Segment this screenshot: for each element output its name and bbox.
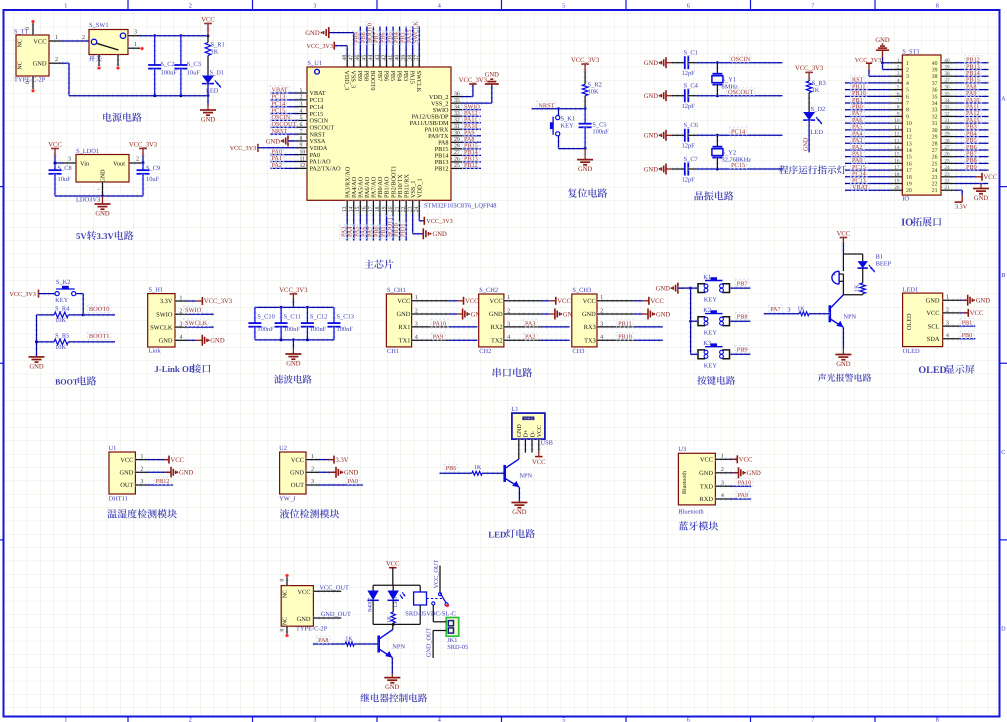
- resistor S_R5 10K: [37, 340, 55, 344]
- keys trunk wire: [689, 288, 693, 354]
- svg-text:GND: GND: [974, 195, 989, 202]
- svg-text:100nF: 100nF: [310, 326, 327, 333]
- svg-text:NPN: NPN: [392, 644, 405, 651]
- IO header pin 8: [890, 108, 902, 112]
- svg-text:100nF: 100nF: [257, 326, 274, 333]
- wire NRST: [532, 107, 585, 111]
- IO header pin 6: [890, 94, 902, 98]
- svg-text:17: 17: [368, 206, 374, 212]
- svg-text:VCC: VCC: [532, 459, 546, 466]
- pin 1 VCC of S_T1: [49, 39, 62, 43]
- svg-text:LED1: LED1: [903, 286, 919, 293]
- svg-text:2: 2: [55, 57, 58, 63]
- ground for S_C4: [666, 95, 672, 97]
- svg-text:14: 14: [349, 206, 355, 212]
- S_CH3 GND power: [634, 312, 642, 316]
- svg-text:5: 5: [300, 115, 303, 121]
- chip bottom pin 14 PA4/AO: [352, 200, 356, 214]
- TYPE-C-2P bottom pin: [285, 626, 289, 634]
- svg-text:PB12: PB12: [464, 162, 478, 169]
- svg-text:LED: LED: [811, 129, 824, 136]
- U2 GND power: [319, 470, 337, 474]
- svg-text:31: 31: [932, 121, 938, 127]
- wire LED to GND net: [807, 120, 811, 152]
- IO header pin 3: [890, 74, 902, 78]
- IO header pin 21: [941, 188, 956, 192]
- svg-text:VCC_3V3: VCC_3V3: [795, 65, 824, 72]
- S_CH2 GND power: [541, 312, 549, 316]
- chip right pin 28 PB15: [451, 147, 462, 151]
- svg-text:1: 1: [64, 716, 67, 722]
- U1 OUT net PB12: [148, 483, 173, 487]
- key S_K1 reset button: [557, 109, 561, 116]
- svg-text:S_R2: S_R2: [588, 82, 602, 89]
- svg-text:VCC_3V3: VCC_3V3: [204, 298, 233, 305]
- U2 OUT net PA0: [319, 483, 363, 487]
- wire K2 to BOOT0: [76, 292, 83, 296]
- svg-text:100nF: 100nF: [284, 326, 301, 333]
- svg-text:9: 9: [300, 143, 303, 149]
- chip left pin 6 OSCOUT: [297, 125, 308, 129]
- S_CH3 pin 2 GND: [597, 312, 634, 316]
- chip top pin 39 PB3: [404, 55, 408, 67]
- svg-text:PA15: PA15: [409, 71, 416, 85]
- bluetooth pin 3 TXD: [715, 484, 730, 488]
- svg-text:4: 4: [415, 335, 418, 341]
- ground for S_C7: [666, 168, 672, 170]
- svg-text:VCC_OUT: VCC_OUT: [433, 560, 440, 589]
- svg-text:12pF: 12pF: [682, 70, 696, 77]
- chip VSS_2 to GND: [462, 101, 492, 105]
- S_CH3 pin 3 RX3: [597, 325, 634, 329]
- key K2 output net PB8: [730, 319, 750, 323]
- svg-text:4: 4: [300, 108, 303, 114]
- J-Link pin 3 SWCLK: [175, 325, 187, 329]
- svg-text:K1: K1: [703, 274, 711, 281]
- svg-text:10: 10: [894, 118, 900, 124]
- svg-text:S_ST1: S_ST1: [902, 48, 919, 55]
- chip bottom pin 19 PB1/AO: [385, 200, 389, 214]
- capacitor S_C5 100nF: [583, 109, 587, 124]
- svg-text:BOOT0: BOOT0: [369, 71, 376, 91]
- resistor S_R1 1K: [207, 36, 209, 43]
- svg-text:19: 19: [894, 179, 900, 185]
- svg-text:38: 38: [944, 71, 950, 77]
- svg-text:B: B: [1001, 272, 1005, 279]
- svg-text:16: 16: [906, 161, 912, 167]
- svg-text:PB11: PB11: [618, 320, 632, 327]
- svg-text:23: 23: [944, 172, 950, 178]
- module U1: [109, 452, 135, 494]
- svg-text:1: 1: [141, 454, 144, 460]
- chip VDD_1 to VCC_3V3: [417, 215, 421, 221]
- lamp base resistor 1K from PB6: [440, 471, 472, 475]
- IO pin22 GND: [956, 182, 989, 186]
- svg-text:PA9: PA9: [738, 492, 748, 499]
- svg-text:KEY: KEY: [561, 122, 575, 129]
- svg-text:3: 3: [906, 74, 909, 80]
- svg-text:VCC_3V3: VCC_3V3: [459, 77, 488, 84]
- relay top rail: [373, 584, 420, 586]
- svg-text:D: D: [1001, 625, 1006, 632]
- svg-text:TX1: TX1: [399, 337, 411, 344]
- header S_CH2: [479, 294, 504, 347]
- svg-text:VDD_3: VDD_3: [343, 71, 350, 91]
- svg-text:S_C10: S_C10: [257, 314, 274, 321]
- svg-text:34: 34: [932, 101, 938, 107]
- key K3 output net PB9: [730, 352, 750, 356]
- svg-text:3: 3: [313, 716, 316, 722]
- svg-text:8: 8: [906, 108, 909, 114]
- JK1 pin2 wire GND_OUT: [433, 630, 446, 632]
- svg-text:S_CH2: S_CH2: [479, 287, 498, 294]
- svg-text:VCC: VCC: [33, 38, 46, 45]
- svg-text:A: A: [1001, 96, 1006, 103]
- svg-text:S_K1: S_K1: [561, 115, 576, 122]
- svg-text:S_C13: S_C13: [337, 314, 354, 321]
- chip left pin 5 OSCIN: [297, 118, 308, 122]
- svg-text:4: 4: [438, 3, 441, 10]
- svg-text:39: 39: [932, 68, 938, 74]
- svg-text:VCC: VCC: [837, 230, 851, 237]
- svg-text:TXD: TXD: [700, 483, 714, 490]
- svg-text:0: 0: [280, 579, 286, 582]
- svg-text:18: 18: [906, 175, 912, 181]
- svg-text:3: 3: [721, 480, 724, 486]
- chip right pin 26 PB13: [451, 160, 462, 164]
- svg-text:J-Link OB: J-Link OB: [154, 364, 194, 374]
- IO header pin 24: [941, 168, 956, 172]
- svg-text:GND: GND: [286, 361, 301, 368]
- ground GND power circuit: [206, 104, 210, 110]
- U2 VCC power: [319, 458, 335, 462]
- svg-text:VCC: VCC: [386, 561, 400, 568]
- IO header pin 5: [890, 88, 902, 92]
- bluetooth VCC power: [731, 457, 738, 461]
- transistor Q NPN alarm: [828, 305, 831, 322]
- resistor S_R4 10K: [37, 313, 55, 317]
- svg-text:GND: GND: [656, 311, 671, 318]
- svg-text:2: 2: [136, 157, 139, 163]
- svg-text:28: 28: [944, 138, 950, 144]
- svg-text:-: -: [98, 187, 100, 193]
- svg-text:VBAT: VBAT: [852, 184, 868, 191]
- svg-text:5: 5: [897, 85, 900, 91]
- svg-text:26: 26: [932, 155, 938, 161]
- svg-text:GND: GND: [517, 424, 523, 438]
- svg-text:NC: NC: [18, 39, 24, 47]
- J-Link SWCLK net: [187, 325, 214, 329]
- U1 GND power: [148, 470, 171, 474]
- svg-text:14: 14: [894, 145, 900, 151]
- svg-text:1: 1: [600, 295, 603, 301]
- svg-text:20: 20: [388, 206, 394, 212]
- svg-text:CH2: CH2: [479, 348, 491, 355]
- svg-text:Bluetooth: Bluetooth: [678, 509, 704, 516]
- svg-text:GND: GND: [699, 470, 713, 477]
- svg-text:GND: GND: [266, 138, 281, 145]
- chip top pin 40 PB4: [398, 55, 402, 67]
- svg-text:3: 3: [897, 71, 900, 77]
- svg-text:S_C3: S_C3: [187, 61, 201, 68]
- svg-text:VCC: VCC: [700, 457, 713, 464]
- svg-text:1K: 1K: [853, 284, 860, 292]
- svg-text:VCC: VCC: [557, 298, 571, 305]
- svg-text:PB10: PB10: [618, 334, 632, 341]
- svg-text:34: 34: [944, 98, 950, 104]
- wire switch pin3 to VCC rail: [140, 34, 208, 38]
- title 电源电路: [103, 113, 112, 122]
- ground for S_C6: [666, 134, 672, 136]
- svg-text:42: 42: [381, 55, 387, 61]
- svg-text:Bluetooth: Bluetooth: [681, 471, 688, 494]
- svg-text:4: 4: [438, 716, 441, 722]
- svg-text:1: 1: [300, 88, 303, 94]
- svg-text:100nF: 100nF: [161, 70, 178, 77]
- svg-text:S_D2: S_D2: [811, 106, 826, 113]
- svg-text:NC: NC: [18, 61, 24, 69]
- svg-text:VCC: VCC: [465, 298, 479, 305]
- svg-text:Link: Link: [149, 348, 162, 355]
- svg-text:22: 22: [932, 182, 938, 188]
- svg-text:2: 2: [189, 716, 192, 722]
- GND_OUT wire: [313, 616, 341, 620]
- connector TYPE-C-2P output: [281, 586, 313, 627]
- svg-text:LED: LED: [488, 529, 506, 539]
- svg-text:30: 30: [932, 128, 938, 134]
- svg-text:K2: K2: [703, 307, 711, 314]
- title U2: [280, 509, 289, 518]
- svg-text:7: 7: [811, 716, 814, 722]
- svg-text:40: 40: [394, 55, 400, 61]
- VCC_OUT wire: [313, 589, 341, 593]
- relay output connector JK1: [446, 618, 459, 637]
- svg-text:19: 19: [381, 206, 387, 212]
- svg-text:Vin: Vin: [80, 161, 90, 168]
- net label NRST: [537, 101, 556, 109]
- svg-text:6: 6: [300, 122, 303, 128]
- U1 pin 1 VCC: [135, 458, 148, 462]
- svg-text:40: 40: [932, 61, 938, 67]
- bluetooth GND power: [731, 471, 739, 475]
- IO header pin 16: [890, 161, 902, 165]
- IO header pin 12: [890, 135, 902, 139]
- svg-text:S_C11: S_C11: [284, 314, 301, 321]
- IO header pin 40: [941, 61, 956, 65]
- resistor S_R3 1K: [806, 81, 812, 92]
- svg-text:3.3V: 3.3V: [955, 203, 968, 210]
- svg-text:2: 2: [189, 3, 192, 10]
- svg-text:S_U1: S_U1: [308, 60, 323, 67]
- svg-text:7: 7: [811, 3, 814, 10]
- svg-text:PB11: PB11: [400, 223, 407, 237]
- svg-text:Vout: Vout: [113, 161, 125, 168]
- svg-text:32: 32: [932, 114, 938, 120]
- ground GND LDO: [101, 196, 105, 204]
- svg-text:GND: GND: [582, 311, 596, 318]
- OLED SDA net PB0: [959, 337, 975, 341]
- LDO GND pin: [101, 182, 105, 196]
- resistor 1K alarm LED: [862, 268, 864, 283]
- svg-text:10uF: 10uF: [187, 70, 201, 77]
- svg-text:NRST: NRST: [272, 128, 288, 135]
- svg-text:VCC: VCC: [984, 174, 998, 181]
- IO pin23 VCC: [956, 175, 976, 179]
- crystal S_Y1 8MHz: [716, 61, 719, 64]
- svg-text:PB6: PB6: [382, 71, 389, 82]
- svg-text:S_C7: S_C7: [684, 156, 699, 163]
- svg-text:10K: 10K: [588, 89, 599, 96]
- title 按键电路: [697, 376, 706, 385]
- svg-text:0: 0: [25, 27, 31, 30]
- IO header pin 28: [941, 141, 956, 145]
- svg-text:GND: GND: [385, 684, 400, 691]
- svg-text:STM32F103C8T6_LQFP48: STM32F103C8T6_LQFP48: [424, 202, 496, 209]
- svg-text:PA8: PA8: [318, 637, 328, 644]
- svg-text:SRD-05: SRD-05: [447, 644, 468, 651]
- svg-text:S_C8: S_C8: [58, 165, 72, 172]
- svg-text:25: 25: [454, 163, 460, 169]
- ground GND BOOT: [35, 355, 39, 359]
- wire to net PC14: [697, 133, 783, 137]
- svg-text:S_C2: S_C2: [161, 61, 175, 68]
- J-Link pin 4 GND: [175, 338, 187, 342]
- svg-text:GND: GND: [179, 470, 194, 477]
- alarm emitter to GND: [841, 327, 845, 347]
- svg-text:10K: 10K: [55, 317, 66, 324]
- svg-text:VCC: VCC: [291, 457, 304, 464]
- svg-text:8: 8: [936, 716, 939, 722]
- svg-text:3: 3: [180, 322, 183, 328]
- svg-text:VCC_3V3: VCC_3V3: [9, 291, 35, 298]
- svg-text:40: 40: [944, 58, 950, 64]
- svg-text:GND: GND: [644, 60, 659, 67]
- title 滤波电路: [274, 375, 283, 384]
- svg-text:1: 1: [897, 58, 900, 64]
- S_CH2 pin 2 GND: [504, 312, 541, 316]
- svg-text:OUT: OUT: [120, 482, 133, 489]
- svg-text:12pF: 12pF: [682, 143, 696, 150]
- svg-text:23: 23: [932, 175, 938, 181]
- svg-text:S_C4: S_C4: [684, 83, 699, 90]
- switch pin 1 unconnected: [128, 46, 140, 50]
- chip right pin 36 VDD_2: [451, 95, 462, 99]
- title 程序运行指示灯: [779, 165, 788, 174]
- svg-text:19: 19: [906, 182, 912, 188]
- svg-text:13: 13: [342, 206, 348, 212]
- svg-text:PB8: PB8: [363, 71, 370, 82]
- svg-text:S_LDO1: S_LDO1: [76, 148, 99, 155]
- svg-text:22: 22: [944, 179, 950, 185]
- OLED GND power: [959, 298, 967, 302]
- svg-text:3: 3: [415, 321, 418, 327]
- svg-text:1K: 1K: [211, 49, 219, 56]
- OLED SCL net PB1: [959, 324, 975, 328]
- svg-text:29: 29: [944, 132, 950, 138]
- J-Link GND: [187, 338, 196, 342]
- alarm top node wires: [843, 253, 862, 255]
- svg-text:NPN: NPN: [843, 313, 856, 320]
- wire to net OSCIN: [697, 61, 783, 65]
- chip right pin 31 PA10/RX: [451, 127, 462, 131]
- svg-text:S_C5: S_C5: [592, 122, 606, 129]
- chip top pin 43 PB7: [378, 55, 382, 67]
- switch S_SW1 contacts and lever: [91, 39, 96, 44]
- svg-text:31: 31: [454, 124, 460, 130]
- chip top pin 47 VSS_3: [352, 55, 356, 67]
- capacitor S_C2 100nF: [153, 36, 157, 65]
- svg-text:12: 12: [300, 163, 306, 169]
- IO header pin 13: [890, 141, 902, 145]
- title 晶振电路: [695, 191, 704, 200]
- IO header pin 37: [941, 81, 956, 85]
- svg-text:GND: GND: [875, 37, 890, 44]
- svg-text:VCC: VCC: [970, 310, 984, 317]
- U1 pin 3 OUT: [135, 483, 148, 487]
- svg-text:S_Y2: S_Y2: [722, 149, 737, 156]
- svg-text:KEY: KEY: [55, 297, 69, 304]
- svg-text:24: 24: [414, 206, 420, 212]
- LDO Vout pin: [129, 161, 143, 165]
- S_CH1 RX net PA10: [449, 325, 478, 329]
- svg-text:B1: B1: [876, 253, 883, 260]
- svg-text:PA10: PA10: [738, 479, 752, 486]
- S_CH3 pin 1 VCC: [597, 299, 634, 303]
- svg-text:3: 3: [134, 29, 137, 35]
- wire S_T1 pin2 GND return: [62, 61, 69, 65]
- svg-text:4: 4: [721, 493, 724, 499]
- svg-text:15: 15: [355, 206, 361, 212]
- title 主芯片: [364, 260, 373, 269]
- U2 pin 2 GND: [306, 470, 319, 474]
- svg-text:32: 32: [454, 118, 460, 124]
- svg-text:D-: D-: [530, 431, 536, 437]
- svg-text:OSCIN: OSCIN: [731, 56, 751, 63]
- svg-text:NC: NC: [283, 617, 289, 625]
- header S_CH3: [572, 294, 597, 347]
- svg-text:48: 48: [342, 55, 348, 61]
- svg-text:TX2: TX2: [491, 337, 503, 344]
- svg-text:GND: GND: [926, 297, 940, 304]
- svg-text:4: 4: [507, 335, 510, 341]
- svg-text:15: 15: [906, 155, 912, 161]
- title 串口电路: [493, 368, 501, 377]
- S_CH1 pin 4 TX1: [412, 338, 449, 342]
- svg-text:4: 4: [897, 78, 900, 84]
- bluetooth pin 4 RXD: [715, 497, 730, 501]
- svg-text:NPN: NPN: [519, 472, 532, 479]
- header S_CH1: [386, 294, 411, 347]
- svg-text:17: 17: [894, 165, 900, 171]
- pin1 marker circle: [315, 69, 320, 74]
- svg-text:USB: USB: [541, 439, 553, 446]
- LED in alarm branch: [862, 254, 864, 261]
- chip right pin 35 VSS_2: [451, 101, 462, 105]
- S_CH2 RX net PA3: [541, 325, 570, 329]
- svg-text:GND: GND: [578, 166, 593, 173]
- svg-text:4: 4: [180, 335, 183, 341]
- svg-text:SWCLK: SWCLK: [150, 324, 173, 331]
- svg-text:RX1: RX1: [398, 324, 410, 331]
- svg-text:43: 43: [375, 55, 381, 61]
- svg-text:13: 13: [906, 141, 912, 147]
- svg-text:3: 3: [68, 157, 71, 163]
- U1 pin 2 GND: [135, 470, 148, 474]
- svg-text:OLED: OLED: [906, 313, 913, 330]
- IO header pin 38: [941, 74, 956, 78]
- svg-text:VCC: VCC: [297, 589, 310, 596]
- svg-text:1: 1: [180, 295, 183, 301]
